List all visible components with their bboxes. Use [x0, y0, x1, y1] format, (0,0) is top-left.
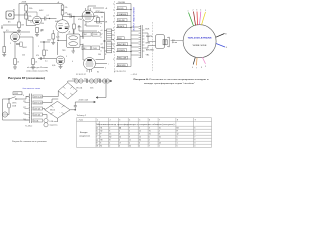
svg-text:100k: 100k — [47, 40, 51, 42]
resistor R10 screen — [97, 18, 100, 24]
svg-text:1k: 1k — [46, 50, 48, 52]
svg-text:≈: ≈ — [73, 89, 74, 91]
svg-text:2: 2 — [38, 46, 39, 48]
wire sec4 — [43, 115, 48, 119]
svg-text:5Ц3С: 5Ц3С — [72, 79, 77, 81]
svg-text:1: 1 — [20, 34, 21, 36]
wire bus to core — [131, 27, 139, 55]
svg-text:0: 0 — [129, 134, 130, 136]
svg-text:6H9C: 6H9C — [23, 47, 28, 49]
ground — [35, 35, 39, 37]
svg-text:17: 17 — [119, 143, 121, 145]
node C2 — [131, 9, 132, 10]
svg-text:2: 2 — [193, 10, 194, 12]
wire V4 out low — [94, 67, 104, 69]
svg-text:П2: П2 — [100, 131, 102, 133]
svg-text:4: 4 — [129, 120, 130, 122]
capacitor C2 bypass — [41, 30, 44, 31]
wire plate — [14, 31, 16, 34]
svg-text:220: 220 — [23, 113, 26, 115]
svg-text:1: 1 — [113, 3, 114, 5]
svg-text:0: 0 — [23, 95, 24, 97]
svg-text:WHITE: WHITE — [146, 36, 153, 38]
svg-text:7: 7 — [149, 146, 150, 148]
svg-text:ТВЗ-1: ТВЗ-1 — [100, 12, 105, 14]
ground — [31, 67, 35, 69]
node I — [49, 18, 50, 19]
svg-text:2: 2 — [194, 134, 195, 136]
wire secondary to speaker ret — [145, 46, 156, 49]
svg-text:0: 0 — [101, 51, 102, 53]
svg-text:8: 8 — [177, 120, 178, 122]
svg-text:6: 6 — [192, 67, 193, 69]
wire lead 6 — [116, 39, 131, 41]
svg-text:0: 0 — [109, 128, 110, 130]
wire lead 2 — [116, 9, 131, 11]
chassis dashed boundary left — [114, 1, 116, 73]
wire input to grid — [14, 15, 33, 21]
wire dark bottom — [193, 58, 195, 65]
svg-text:KBL04: KBL04 — [50, 110, 55, 112]
wire T1 secondary a — [80, 36, 83, 38]
resistor R1 — [25, 5, 28, 11]
svg-text:a1: a1 — [101, 30, 103, 32]
svg-text:6,8k: 6,8k — [52, 65, 55, 67]
wire T1 left — [58, 32, 67, 41]
node H — [58, 40, 59, 41]
svg-text:0,5: 0,5 — [6, 30, 9, 32]
table data text — [97, 127, 196, 148]
resistor R7 — [3, 47, 6, 53]
svg-text:6: 6 — [119, 134, 120, 136]
caption upper schematic — [26, 67, 49, 72]
wire OPT taps — [105, 31, 115, 52]
filter chain wire — [72, 80, 113, 82]
transformer T2 core — [140, 25, 142, 58]
transformer face circle — [183, 25, 216, 58]
wire rail drop — [25, 4, 27, 6]
svg-text:70: 70 — [149, 131, 151, 133]
svg-text:40мк: 40мк — [84, 79, 88, 81]
svg-text:0: 0 — [129, 143, 130, 145]
svg-text:3: 3 — [194, 143, 195, 145]
svg-text:0: 0 — [194, 131, 195, 133]
svg-text:7: 7 — [196, 67, 197, 69]
svg-text:6: 6 — [100, 137, 101, 139]
svg-text:15: 15 — [159, 128, 161, 130]
resistor R9 — [32, 59, 35, 65]
svg-text:a3: a3 — [101, 44, 103, 46]
svg-text:8k: 8k — [97, 72, 99, 74]
label box BLACK — [117, 25, 127, 28]
svg-text:40мк: 40мк — [97, 79, 101, 81]
output transformer OPT primary upper — [107, 29, 112, 40]
svg-text:20: 20 — [101, 17, 103, 19]
resistor R2 — [25, 13, 28, 19]
wire bridge1 top out — [68, 81, 72, 83]
svg-text:4: 4 — [194, 146, 195, 148]
svg-text:240: 240 — [23, 119, 26, 121]
wire bus vertical — [130, 4, 132, 67]
svg-text:1k: 1k — [100, 23, 102, 25]
svg-text:3C 30 35 37: 3C 30 35 37 — [76, 74, 86, 76]
svg-text:5: 5 — [159, 140, 160, 142]
interstage transformer T1 — [67, 34, 81, 48]
resistor R11 — [61, 5, 64, 10]
svg-text:0: 0 — [177, 140, 178, 142]
ground — [2, 55, 6, 57]
pentode V3 output upper — [82, 10, 94, 22]
svg-text:6H8C: 6H8C — [55, 21, 60, 23]
wire lead 10 — [116, 66, 131, 68]
wire arrow out — [110, 80, 112, 82]
wire bridge2 bottom — [56, 118, 58, 121]
svg-text:320V 0.2A: 320V 0.2A — [34, 101, 43, 104]
svg-text:В2: В2 — [109, 137, 111, 139]
svg-text:BROWN: BROWN — [118, 65, 126, 67]
node C3 — [131, 51, 132, 52]
svg-text:4: 4 — [72, 61, 73, 63]
pin numbers top — [188, 10, 207, 13]
capacitor C3 — [70, 15, 71, 18]
wire splitter plate — [63, 17, 75, 20]
svg-text:YELLOW: YELLOW — [118, 57, 126, 59]
svg-text:470k: 470k — [78, 19, 82, 21]
svg-text:5: 5 — [177, 146, 178, 148]
svg-text:Рисунок 87 (окончание): Рисунок 87 (окончание) — [8, 77, 45, 80]
svg-text:2: 2 — [149, 143, 150, 145]
capacitor C4 — [40, 57, 41, 60]
svg-text:подсветка: подсветка — [50, 125, 58, 127]
label box GOLD — [117, 7, 126, 10]
wire V3 plate to OPT — [94, 13, 104, 30]
svg-text:6H9C: 6H9C — [39, 10, 44, 12]
wire plate up — [26, 12, 37, 16]
ground — [51, 43, 55, 45]
wire lower rail — [40, 41, 50, 43]
svg-text:соединения: соединения — [79, 135, 90, 137]
capacitor C6 — [87, 79, 88, 83]
wire sec1 to bridge1 — [43, 91, 59, 97]
wire left gray — [171, 39, 184, 41]
hookup wire labels — [113, 2, 175, 76]
resistor R8 — [14, 59, 17, 65]
speaker LS1 — [156, 35, 178, 49]
svg-text:0,25: 0,25 — [56, 37, 60, 39]
svg-text:+: + — [71, 85, 72, 87]
wire yellow — [202, 12, 206, 25]
wire T1 plus B — [72, 30, 74, 35]
wire V4 bottom — [89, 70, 91, 73]
svg-text:3: 3 — [119, 120, 120, 122]
wire T1 secondary b — [80, 44, 83, 46]
svg-text:220k: 220k — [29, 8, 33, 10]
svg-text:— 4 5 6: — 4 5 6 — [131, 74, 137, 76]
svg-text:9: 9 — [113, 59, 114, 61]
svg-text:OUTPUT TRANSFORMER: OUTPUT TRANSFORMER — [132, 6, 135, 31]
svg-text:схема обоих каналов НЧ: схема обоих каналов НЧ — [26, 71, 49, 73]
svg-text:5: 5 — [205, 10, 206, 12]
svg-text:a: a — [100, 26, 101, 28]
wire green — [189, 13, 194, 26]
value label box K1 — [82, 32, 100, 50]
svg-text:8: 8 — [201, 67, 202, 69]
value label box — [13, 92, 22, 95]
svg-text:1: 1 — [97, 120, 98, 122]
svg-text:7: 7 — [159, 120, 160, 122]
resistor R5 — [52, 34, 55, 39]
svg-text:0: 0 — [149, 137, 150, 139]
capacitor C8 — [74, 106, 77, 107]
svg-text:30: 30 — [139, 140, 141, 142]
svg-text:2: 2 — [113, 9, 114, 11]
ground — [1, 25, 3, 28]
svg-text:3: 3 — [113, 15, 114, 17]
svg-text:0: 0 — [119, 140, 120, 142]
svg-text:2,2: 2,2 — [30, 22, 33, 24]
svg-text:4: 4 — [109, 143, 110, 145]
wire V3 grid — [82, 20, 84, 39]
resistor R3 — [18, 22, 21, 28]
svg-text:П3: П3 — [100, 140, 102, 142]
wire bridge2 out — [70, 109, 75, 111]
plug P1 — [2, 112, 7, 117]
svg-text:6: 6 — [139, 143, 140, 145]
svg-text:блок питания: схема: блок питания: схема — [23, 88, 41, 90]
svg-text:2k: 2k — [17, 62, 19, 64]
svg-text:TBЗ: TBЗ — [62, 50, 65, 52]
svg-text:31: 31 — [149, 134, 151, 136]
svg-text:ORANGE: ORANGE — [118, 13, 127, 16]
svg-text:5: 5 — [10, 43, 11, 45]
table extra data — [109, 128, 195, 148]
svg-text:~: ~ — [59, 113, 60, 115]
svg-text:115: 115 — [23, 101, 26, 103]
wire T1 bottom gnd — [72, 48, 74, 52]
wire lead 8 — [116, 51, 131, 53]
svg-text:RED: RED — [118, 38, 123, 40]
svg-text:5: 5 — [66, 56, 67, 58]
node B — [104, 40, 105, 41]
svg-text:22k: 22k — [65, 7, 68, 9]
svg-text:0.1: 0.1 — [69, 14, 72, 16]
svg-text:6: 6 — [194, 128, 195, 130]
transformer T2 primary winding ticks — [139, 27, 141, 58]
svg-text:12: 12 — [177, 134, 179, 136]
wire lead 5 — [116, 27, 131, 29]
svg-text:2k: 2k — [35, 62, 37, 64]
svg-text:GOLD: GOLD — [118, 8, 124, 10]
svg-text:50: 50 — [129, 146, 131, 148]
svg-text:6: 6 — [149, 120, 150, 122]
svg-text:11: 11 — [129, 140, 131, 142]
wire orange bottom — [196, 58, 199, 66]
svg-text:2: 2 — [110, 120, 111, 122]
svg-text:16: 16 — [159, 137, 161, 139]
transformer T2 secondary winding ticks — [142, 30, 144, 51]
svg-text:7: 7 — [129, 128, 130, 130]
svg-text:1: 1 — [177, 143, 178, 145]
svg-text:300: 300 — [41, 23, 44, 25]
ground — [18, 28, 20, 31]
svg-text:2: 2 — [109, 146, 110, 148]
svg-text:0,1: 0,1 — [45, 61, 48, 63]
ground — [13, 67, 17, 69]
label box BROWN — [117, 64, 127, 67]
svg-text:BROWN: BROWN — [146, 50, 154, 52]
node A — [43, 41, 44, 42]
svg-text:R1: R1 — [13, 10, 15, 12]
svg-text:a2: a2 — [101, 34, 103, 36]
wire arrow out2 — [94, 101, 96, 103]
svg-text:45: 45 — [109, 134, 111, 136]
table vertical lines — [96, 118, 194, 148]
svg-text:YEL/BK: YEL/BK — [118, 20, 126, 22]
bridge rectifier D2 — [45, 101, 70, 118]
svg-text:5: 5 — [113, 27, 114, 29]
svg-text:GRN: GRN — [146, 43, 151, 45]
svg-text:8: 8 — [109, 131, 110, 133]
svg-text:k: k — [105, 68, 106, 70]
wire to splitter — [40, 18, 45, 20]
node F — [79, 26, 80, 27]
svg-text:+300B: +300B — [21, 2, 27, 4]
svg-text:К: К — [100, 143, 101, 145]
table left block text — [79, 132, 90, 138]
transformer T3 core — [29, 94, 31, 124]
svg-text:0: 0 — [139, 146, 140, 148]
table header text — [78, 120, 196, 127]
wire blue right — [216, 44, 225, 48]
svg-text:470k: 470k — [78, 27, 82, 29]
svg-text:44: 44 — [159, 143, 161, 145]
svg-text:8: 8 — [159, 134, 160, 136]
svg-text:1: 1 — [159, 146, 160, 148]
wire V3 cathode run2 — [79, 26, 97, 31]
wire grid leak drop — [18, 4, 20, 23]
transformer T3 primary arrows — [25, 97, 29, 121]
svg-text:5: 5 — [177, 137, 178, 139]
svg-text:9: 9 — [205, 66, 206, 68]
svg-text:30Гн: 30Гн — [90, 88, 94, 90]
svg-text:9: 9 — [194, 140, 195, 142]
wire secondary to speaker hot — [145, 33, 156, 42]
capacitor C1 coupling — [45, 17, 46, 21]
svg-text:6: 6 — [113, 39, 114, 41]
svg-text:0.1: 0.1 — [47, 15, 50, 17]
svg-text:8: 8 — [113, 51, 114, 53]
resistor R14 — [20, 42, 22, 47]
resistor R12 — [61, 11, 64, 16]
value labels text — [6, 2, 109, 76]
wire V3 cathode run1 — [86, 22, 99, 26]
svg-text:47k: 47k — [29, 16, 32, 18]
svg-text:0: 0 — [101, 37, 102, 39]
svg-text:+310В 0.12А: +310В 0.12А — [78, 99, 89, 102]
lower channel input: top rail — [3, 31, 30, 33]
wire V3 top — [88, 6, 96, 10]
svg-text:+ Табл: + Табл — [78, 120, 84, 122]
svg-text:Таблица 2: Таблица 2 — [77, 115, 87, 117]
node G — [74, 16, 75, 17]
svg-text:3: 3 — [149, 128, 150, 130]
wire lead 3 — [116, 15, 131, 17]
svg-text:4: 4 — [200, 10, 201, 12]
svg-text:В2: В2 — [177, 128, 179, 130]
label box RED — [117, 37, 124, 40]
svg-text:3: 3 — [196, 10, 197, 12]
svg-text:3: 3 — [129, 137, 130, 139]
svg-text:47k: 47k — [36, 55, 39, 57]
label box WHT/BR — [117, 43, 127, 46]
svg-text:6.3V 3A: 6.3V 3A — [34, 113, 41, 116]
svg-text:127: 127 — [23, 107, 26, 109]
wire R1-R2 — [25, 11, 27, 13]
svg-text:320V 0.2A: 320V 0.2A — [34, 95, 43, 98]
svg-text:9: 9 — [139, 134, 140, 136]
wire B+ down branch — [96, 81, 106, 98]
svg-text:5: 5 — [129, 131, 130, 133]
svg-text:Рисунок 8: Распаячка и система: Рисунок 8: Распаячка и система маркировк… — [134, 79, 210, 81]
svg-text:6.3V 3A: 6.3V 3A — [34, 107, 41, 110]
fuse F1 — [8, 103, 11, 108]
resistor R6 — [43, 50, 46, 56]
resistor R4 cathode — [36, 28, 39, 33]
node D — [131, 45, 132, 46]
triode V1b — [11, 33, 20, 42]
svg-text:Рисунок 8х: силовая часть усил: Рисунок 8х: силовая часть усилителя — [12, 141, 47, 143]
wire magenta — [200, 12, 201, 25]
wire pink bottom — [202, 57, 205, 64]
label box YELLOW — [117, 56, 127, 59]
svg-text:ТС-180-2: ТС-180-2 — [25, 126, 32, 128]
wire lead 9 — [116, 58, 131, 60]
svg-text:GREEN: GREEN — [118, 50, 126, 52]
svg-text:7: 7 — [194, 137, 195, 139]
svg-text:5Н 0.2А: 5Н 0.2А — [76, 87, 83, 90]
wire lead 1 — [116, 3, 131, 5]
svg-text:0: 0 — [139, 128, 140, 130]
svg-text:560: 560 — [98, 54, 101, 56]
triode V2b — [56, 56, 65, 65]
ground — [60, 65, 62, 67]
svg-text:К2: К2 — [100, 146, 102, 148]
table outer frame — [77, 118, 212, 148]
wire left gnd run — [3, 24, 17, 26]
svg-text:4: 4 — [159, 131, 160, 133]
wire V3 cathode out — [94, 21, 104, 23]
pin numbers bottom — [192, 66, 206, 70]
svg-text:CB-20B: CB-20B — [118, 2, 126, 4]
wire lower bus — [38, 58, 56, 60]
wire primary bottom — [3, 99, 29, 120]
svg-text:12: 12 — [139, 137, 141, 139]
wire sec3 to bridge2 — [43, 109, 45, 110]
capacitor C7 — [100, 79, 101, 83]
secondary winding tap boxes — [33, 95, 43, 122]
svg-text:П1: П1 — [100, 128, 102, 130]
svg-text:WIRE SIDE: WIRE SIDE — [193, 45, 208, 47]
bridge rectifier D1 — [58, 83, 77, 100]
svg-text:ТВЗ: ТВЗ — [102, 47, 105, 49]
label box GREEN — [117, 49, 127, 52]
triode V1a — [33, 16, 42, 25]
svg-text:9: 9 — [195, 120, 196, 122]
svg-text:WHT/BR: WHT/BR — [118, 44, 126, 46]
svg-text:Выходы: Выходы — [80, 132, 88, 134]
svg-text:22: 22 — [139, 131, 141, 133]
chassis dashed boundary right — [152, 22, 154, 71]
